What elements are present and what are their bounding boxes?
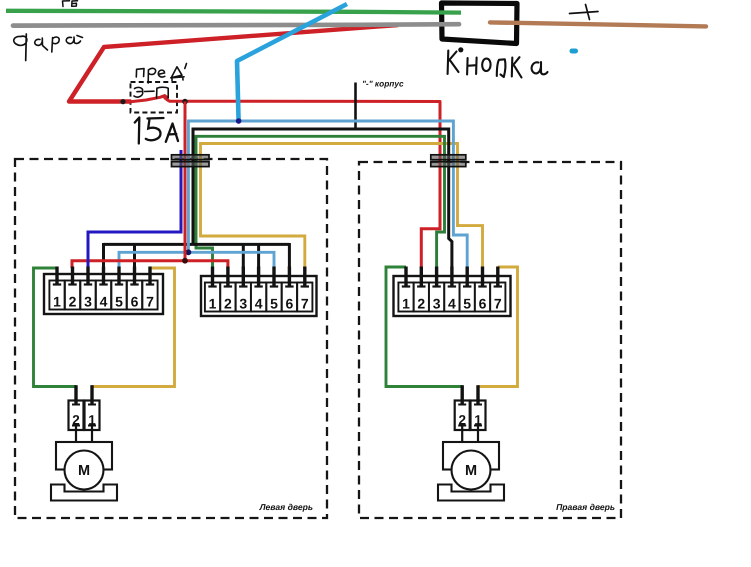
handwritten label фара [14,34,83,61]
svg-text:7: 7 [494,295,502,311]
motor right door: mounting bracket [438,485,504,501]
7-pin connector C (right door): cell pin 5 [460,283,475,312]
svg-text:4: 4 [448,295,456,311]
7-pin connector A (left door left): cell pin 3 [80,281,95,310]
svg-text:M: M [78,463,90,479]
svg-text:2: 2 [224,295,232,311]
junction dot light blue bus / diagonal [236,118,242,124]
svg-text:6: 6 [479,295,487,311]
svg-text:5: 5 [270,295,278,311]
wire: red feed from headlight through fuse to bus [69,25,440,168]
7-pin connector B (left door right): pin stub 2 [224,267,232,287]
motor left door: housing [56,442,112,470]
junction dot light blue left door tap [186,249,192,255]
dark blue wire left door to pin3 [88,150,181,268]
green wire right door: pin1 to motor connector pin2 [386,267,462,387]
svg-text:Правая дверь: Правая дверь [556,502,615,512]
7-pin connector B (left door right): pin stub 6 [285,267,293,287]
svg-text:5: 5 [463,295,471,311]
7-pin connector C (right door): pin stub 7 [494,267,502,287]
7-pin connector B (left door right): pin stub 3 [239,267,247,287]
7-pin connector B (left door right): cell pin 7 [297,283,312,312]
yellow wire right door: pin7 to motor connector pin1 [478,267,518,387]
7-pin connector B (left door right): pin stub 7 [301,267,309,287]
black ground stub: pin6 left connector A [133,243,136,268]
7-pin connector C (right door): cell pin 4 [444,283,459,312]
7-pin connector B (left door right): housing [201,276,317,316]
junction dot red bus / left bundle tap [182,99,188,105]
svg-text:6: 6 [286,295,294,311]
7-pin connector A (left door left): cell pin 6 [127,281,142,310]
black ground stub: pin4 left connector B [257,243,260,268]
7-pin connector A (left door left): cell pin 7 [142,281,157,310]
svg-text:M: M [465,463,477,479]
svg-text:1: 1 [53,293,61,309]
handwritten label Кнопка [448,47,548,77]
chassis ground wire "-" корпус [354,83,357,131]
svg-text:1: 1 [209,295,217,311]
svg-text:5: 5 [115,293,123,309]
7-pin connector B (left door right): cell pin 4 [251,283,266,312]
right grommet (bulkhead connector) [431,155,466,167]
svg-text:4: 4 [255,295,263,311]
7-pin connector B (left door right): pin stub 1 [208,267,216,287]
small blue dot mark [570,49,579,54]
7-pin connector A (left door left): pin stub 4 [99,267,107,285]
svg-text:7: 7 [146,293,154,309]
motor left door: M circle [65,451,104,490]
2-pin connector left door: pin stubs and leads [72,385,96,443]
switch/button box (trapezoid) [442,3,518,44]
handwritten label ГБ [63,1,78,7]
7-pin connector C (right door): cell pin 3 [429,283,444,312]
2-pin motor connector left door [69,401,100,431]
wire: green line from ГБ to button [6,11,461,13]
7-pin connector A (left door left): pin stub 6 [130,267,138,285]
label "-" корпус [362,79,404,89]
label Правая дверь [556,502,615,512]
7-pin connector A (left door left): pin stub 3 [84,267,92,285]
junction dot on red wire left of fuse [120,99,125,104]
7-pin connector C (right door): pin stub 4 [448,267,456,287]
black ground stub: pin3 left connector B [242,243,245,268]
svg-text:3: 3 [84,293,92,309]
left grommet (bulkhead connector) [172,155,210,167]
motor right door: housing [443,442,499,470]
7-pin connector B (left door right): cell pin 2 [220,283,235,312]
2-pin motor connector right door [455,401,486,431]
handwritten plus sign [570,5,599,20]
7-pin connector A (left door left): pin stub 1 [53,267,61,285]
7-pin connector C (right door): pin stub 1 [402,267,410,287]
label Левая дверь [259,502,313,512]
svg-text:2: 2 [69,293,77,309]
7-pin connector C (right door): pin stub 3 [432,267,440,287]
black ground stub: pin6 left connector B [288,243,291,268]
fuse box dashed outline [131,82,178,113]
7-pin connector C (right door): cell pin 6 [475,283,490,312]
7-pin connector B (left door right): cell pin 1 [205,283,220,312]
7-pin connector A (left door left): cell pin 5 [111,281,126,310]
svg-text:2: 2 [417,295,425,311]
yellow bus line between doors [201,144,483,269]
7-pin connector A (left door left): cell pin 1 [49,281,64,310]
wire: light blue diagonal from button circuit down to blue bus [237,4,347,121]
7-pin connector C (right door): pin stub 2 [417,267,425,287]
wire: brown line from button to + [490,22,706,26]
handwritten label 15А [135,118,178,144]
7-pin connector C (right door): housing [394,276,511,316]
svg-text:1: 1 [402,295,410,311]
handwritten fuse symbol inside fuse box [134,87,168,98]
7-pin connector B (left door right): pin stub 5 [270,267,278,287]
right door dashed enclosure "Правая дверь" [359,162,621,518]
7-pin connector A (left door left): cell pin 2 [65,281,80,310]
7-pin connector A (left door left): pin stub 2 [68,267,76,285]
black ground bus line [104,129,452,268]
black ground stub: pin4 left connector A [102,243,105,268]
7-pin connector C (right door): pin stub 5 [463,267,471,287]
svg-text:6: 6 [131,293,139,309]
7-pin connector A (left door left): pin stub 5 [115,267,123,285]
7-pin connector C (right door): cell pin 7 [490,283,505,312]
7-pin connector A (left door left): pin stub 7 [146,267,154,285]
7-pin connector C (right door): cell pin 1 [398,283,413,312]
7-pin connector C (right door): pin stub 6 [478,267,486,287]
7-pin connector B (left door right): cell pin 3 [236,283,251,312]
svg-text:Левая дверь: Левая дверь [259,502,313,512]
7-pin connector B (left door right): pin stub 4 [254,267,262,287]
2-pin connector right door: pin stubs and leads [458,385,482,443]
wire: gray line from фара to button [13,24,459,25]
7-pin connector C (right door): cell pin 2 [414,283,429,312]
svg-text:7: 7 [301,295,309,311]
red wire drop into right door to pin2 [421,167,440,268]
yellow wire left door: pin7 to motor connector pin1 [92,268,175,387]
7-pin connector B (left door right): cell pin 6 [282,283,297,312]
7-pin connector A (left door left): cell pin 4 [96,281,111,310]
svg-text:3: 3 [239,295,247,311]
left door dashed enclosure "Левая дверь" [15,159,327,518]
svg-text:"-" корпус: "-" корпус [362,79,404,89]
7-pin connector B (left door right): cell pin 5 [266,283,281,312]
svg-text:3: 3 [433,295,441,311]
motor right door: M circle [452,451,491,490]
motor left door: mounting bracket [51,485,117,501]
7-pin connector A (left door left): housing [44,274,163,314]
light blue bus line between doors [119,121,467,268]
junction dot red left door tap [182,258,188,264]
green bus line between doors [196,136,445,268]
red wire drop into left door to pin2s [72,102,228,269]
green wire left door: pin1 to motor connector pin2 [34,268,77,387]
svg-text:4: 4 [100,293,108,309]
handwritten label пред [136,64,186,84]
